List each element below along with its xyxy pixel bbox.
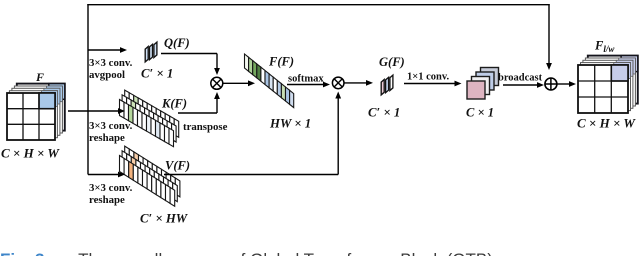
svg-text:C′ × 1: C′ × 1 xyxy=(141,67,173,81)
svg-text:3×3 conv.: 3×3 conv. xyxy=(89,182,133,194)
svg-text:K(F): K(F) xyxy=(161,97,187,111)
input feature cube F xyxy=(7,84,65,140)
figure caption (cut off at bottom) xyxy=(0,250,498,256)
svg-text:C × 1: C × 1 xyxy=(466,106,494,120)
wire cube to bus xyxy=(68,110,88,112)
wire V horizontal xyxy=(164,174,338,176)
svg-text:3×3 conv.: 3×3 conv. xyxy=(89,57,133,69)
wire multiplier2 to G xyxy=(345,82,367,84)
tensor C x 1 stack xyxy=(467,68,499,100)
wire 1x1 conv arrow xyxy=(404,83,455,85)
adder oplus xyxy=(545,78,557,90)
wire K up into multiplier xyxy=(216,99,218,113)
output feature cube xyxy=(578,56,638,113)
svg-text:C′ × HW: C′ × HW xyxy=(140,212,189,226)
svg-text:broadcast: broadcast xyxy=(498,73,543,84)
svg-text:3×3 conv.: 3×3 conv. xyxy=(89,120,133,132)
wire skip down into adder xyxy=(548,4,550,63)
wire branch to Q xyxy=(88,49,120,51)
svg-text:transpose: transpose xyxy=(183,121,228,133)
svg-text:softmax: softmax xyxy=(288,74,324,85)
svg-text:G(F): G(F) xyxy=(379,55,405,69)
multiplier otimes 2 xyxy=(332,77,344,89)
wire multiplier1 to attention map xyxy=(223,82,248,84)
wire branch to V xyxy=(88,174,118,176)
multiplier otimes 1 xyxy=(211,77,223,89)
tensor Q slices xyxy=(145,42,157,62)
attention map F(F) ribbon xyxy=(245,54,294,108)
wire K transpose horizontal xyxy=(178,112,217,114)
svg-text:C′ × 1: C′ × 1 xyxy=(368,106,400,120)
wire Q down into multiplier xyxy=(216,54,218,69)
tensor K ribbon xyxy=(120,90,179,147)
svg-text:1×1 conv.: 1×1 conv. xyxy=(407,72,450,83)
wire top skip connection xyxy=(87,4,549,6)
tensor V ribbon xyxy=(120,146,180,206)
svg-text:C × H × W: C × H × W xyxy=(1,146,60,161)
svg-text:F(F): F(F) xyxy=(268,55,294,69)
wire adder to output xyxy=(557,83,569,85)
wire Q horizontal xyxy=(161,53,217,55)
svg-text:avgpool: avgpool xyxy=(89,69,125,81)
wire V up into multiplier2 xyxy=(337,99,339,175)
svg-text:HW × 1: HW × 1 xyxy=(269,117,311,131)
svg-text:C × H × W: C × H × W xyxy=(577,116,636,131)
svg-text:reshape: reshape xyxy=(89,132,125,144)
tensor G slices xyxy=(381,75,393,95)
wire softmax arrow xyxy=(287,84,323,86)
svg-text:F: F xyxy=(35,70,44,84)
svg-text:Q(F): Q(F) xyxy=(164,36,190,50)
wire vertical bus xyxy=(87,4,89,175)
svg-text:V(F): V(F) xyxy=(165,159,190,173)
svg-text:reshape: reshape xyxy=(89,194,125,206)
wire branch to K xyxy=(88,110,118,112)
wire broadcast arrow xyxy=(503,84,537,86)
